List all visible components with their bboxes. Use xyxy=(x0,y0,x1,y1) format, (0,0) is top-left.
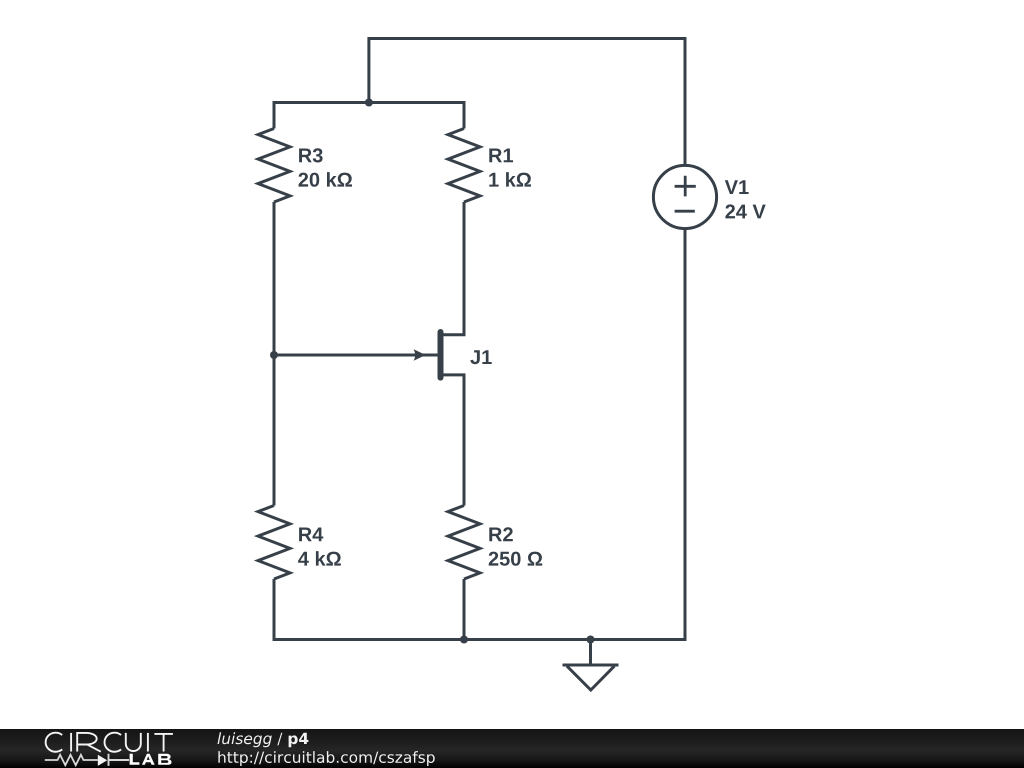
label R2 xyxy=(489,527,513,541)
logo letter R xyxy=(77,733,101,752)
label R1 xyxy=(489,149,513,163)
label R4 xyxy=(299,528,323,542)
resistor R4 xyxy=(258,506,290,580)
wire gate from node to J1 xyxy=(274,354,438,357)
footer title text xyxy=(218,732,309,747)
logo LAB letter L xyxy=(130,754,140,765)
node junction dot at top rail xyxy=(365,99,373,107)
wire left branch lead into R3 xyxy=(273,101,276,129)
wire R3 to R4 (gate node) xyxy=(273,202,276,506)
logo letter I xyxy=(70,733,72,752)
wire R1 to J1 drain xyxy=(441,202,464,335)
logo letter I xyxy=(147,733,149,752)
label R3 xyxy=(299,148,323,162)
logo letter C xyxy=(46,733,63,752)
resistor R2 xyxy=(448,506,480,580)
voltage source V1 minus sign xyxy=(675,210,695,213)
label V1 value 24 V xyxy=(725,204,765,218)
wire R4 to bottom rail xyxy=(273,579,276,641)
resistor R1 xyxy=(448,129,480,203)
wire top loop: node to V1+ xyxy=(369,39,685,166)
wire V1 minus to bottom rail xyxy=(684,229,687,641)
node junction dot ground xyxy=(587,636,595,644)
wire right branch lead into R1 xyxy=(463,101,466,129)
wire node rail y=102.5 xyxy=(274,101,464,104)
label R1 value 1 kOhm xyxy=(489,172,531,187)
logo LAB letter B xyxy=(158,754,171,765)
label R4 value 4 kOhm xyxy=(298,551,341,566)
logo letter U xyxy=(126,733,141,751)
logo resistor glyph xyxy=(45,755,98,765)
voltage source V1 plus sign xyxy=(675,176,696,197)
resistor R3 xyxy=(258,129,290,203)
logo diode triangle xyxy=(98,755,107,766)
voltage source V1 circle xyxy=(653,165,716,228)
ground symbol xyxy=(563,665,619,690)
footer url text xyxy=(218,751,434,766)
label R2 value 250 Ohm xyxy=(489,552,543,566)
label R3 value 20 kOhm xyxy=(299,172,353,187)
logo LAB letter A xyxy=(142,754,155,765)
logo diode bar xyxy=(109,754,130,766)
footer bar xyxy=(0,729,1024,768)
wire ground stub xyxy=(589,640,592,665)
node junction dot R2 bottom xyxy=(460,636,468,644)
wire R2 to bottom rail xyxy=(463,579,466,640)
label J1 xyxy=(470,350,491,364)
wire J1 source to R2 xyxy=(441,375,464,506)
node junction dot gate xyxy=(270,351,278,359)
transistor J1 (N-JFET) gate bar xyxy=(438,332,444,378)
transistor J1 gate arrowhead xyxy=(414,349,426,361)
logo letter T xyxy=(154,734,173,752)
label V1 xyxy=(725,180,749,194)
wire bottom rail xyxy=(273,638,686,641)
logo letter C xyxy=(105,733,122,752)
